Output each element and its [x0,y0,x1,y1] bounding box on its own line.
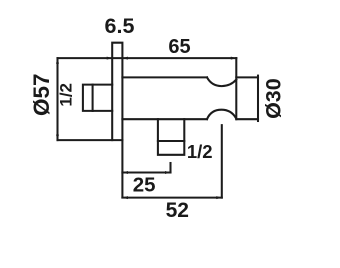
arrowhead 52 left [122,196,128,199]
body top edge [122,76,207,78]
arrowhead d57 bottom [56,135,59,141]
bottom outlet tube [158,119,184,155]
plate bottom edge / diameter 57 bottom extension line [58,139,123,141]
arrowhead 25 right [165,171,171,174]
diameter 57 dimension line vertical [56,58,58,140]
arrowhead 6.5 left [107,57,113,60]
svg-text:6.5: 6.5 [105,14,135,38]
arrowhead d57 top [56,58,59,64]
wall plate side view [112,43,122,198]
arrowhead 25 left [122,171,128,174]
svg-text:52: 52 [166,199,189,222]
svg-text:1/2: 1/2 [57,83,76,107]
top cradle notch [207,77,236,86]
svg-text:25: 25 [133,173,156,196]
bottom cradle bump [207,110,236,120]
svg-text:Ø30: Ø30 [262,78,286,119]
svg-text:65: 65 [168,36,190,58]
cap top edge [236,76,258,78]
25 dimension line [122,171,170,173]
svg-text:Ø57: Ø57 [29,73,54,116]
arrowhead 65 left [122,57,128,60]
horizontal dimension line y58 (6.5 and 65 dims, diameter 57 top extension) [58,57,237,59]
arrowhead 65 right [231,57,237,60]
25 extension tick at outlet center [169,163,171,173]
cap bottom edge [236,118,258,120]
inlet fitting flange line [92,85,94,111]
cap right edge [257,76,259,121]
left 1/2 inlet fitting [83,85,112,111]
body bottom edge [122,118,207,120]
52 extension line from cradle center [221,125,223,197]
outlet thread step line [158,140,184,142]
svg-text:1/2: 1/2 [187,141,213,162]
52 dimension line [122,197,221,199]
cap left edge and 65 extension line [235,58,237,119]
arrowhead 52 right [216,196,222,199]
